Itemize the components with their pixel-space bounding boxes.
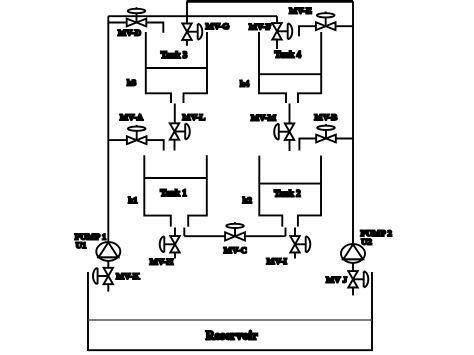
tank Tank 3 — [146, 32, 207, 103]
valve MV-H — [160, 236, 180, 252]
wire Tank 2 drain to MV-I — [294, 228, 296, 237]
svg-text:MV-L: MV-L — [182, 112, 205, 122]
wire left supply riser — [107, 16, 109, 242]
svg-text:MV J: MV J — [326, 275, 348, 285]
svg-text:MV-A: MV-A — [120, 112, 144, 122]
svg-text:MV-E: MV-E — [289, 5, 312, 15]
wire pump1 to MV-K — [107, 261, 109, 268]
svg-text:h4: h4 — [240, 78, 250, 88]
wire MV-L outlet stub — [174, 140, 176, 151]
wire MV-F drop from header — [276, 16, 278, 23]
wire MV-G riser — [186, 1, 188, 23]
wire MV-B branch right — [336, 138, 353, 140]
valve MV-G — [182, 24, 202, 40]
wire MV-H outlet stub — [174, 253, 176, 259]
tank Tank 4 — [259, 32, 321, 103]
svg-text:h3: h3 — [127, 77, 137, 87]
pump U2 — [341, 244, 365, 263]
wire MV-E branch right — [336, 25, 353, 27]
valve MV-J — [348, 271, 368, 287]
valve MV-L — [170, 123, 190, 139]
wire Tank 1 to MV-C riser — [183, 228, 185, 237]
wire Tank 1 drain to MV-H — [174, 228, 176, 237]
wire MV-A branch right + stub into Tank 1 — [147, 140, 164, 150]
svg-text:Tank 3: Tank 3 — [161, 50, 188, 60]
valve MV-K — [93, 268, 113, 284]
valve MV-E — [316, 12, 336, 31]
wire MV-D branch right + stub into Tank 3 — [146, 23, 163, 33]
wire right supply riser — [352, 1, 354, 244]
wire Tank 2 to MV-C riser — [285, 228, 287, 237]
svg-text:Tank 2: Tank 2 — [274, 189, 301, 199]
wire MV-G outlet stub — [186, 40, 188, 46]
wire top header from pump1 to MV-F — [108, 15, 277, 17]
pump U1 — [96, 242, 120, 261]
svg-text:MV-G: MV-G — [206, 21, 230, 31]
wire MV-I outlet stub — [294, 253, 296, 259]
svg-text:MV-H: MV-H — [150, 256, 174, 266]
wire MV-J outlet stub — [352, 287, 354, 295]
svg-text:h1: h1 — [128, 195, 137, 205]
wire MV-K outlet stub — [107, 284, 109, 291]
wire MV-A branch left — [108, 139, 127, 141]
wire MV-E branch left + stub into Tank 4 — [299, 26, 316, 36]
wire MV-B branch left + stub into Tank 2 — [299, 139, 316, 151]
wire Tank 4 drain pipe — [289, 104, 291, 124]
svg-text:MV-I: MV-I — [267, 256, 288, 266]
wire pump2 to MV-J — [352, 263, 354, 271]
tank Reservoir — [88, 272, 372, 350]
tank Tank 1 — [144, 155, 207, 226]
valve MV-F — [272, 23, 292, 39]
wire top bar MV-G to right frame — [187, 0, 354, 3]
svg-text:Reservoir: Reservoir — [206, 329, 259, 343]
svg-text:U1: U1 — [76, 240, 87, 250]
valve MV-A — [127, 125, 147, 144]
wire MV-C cross line — [184, 235, 285, 237]
valve MV-D — [127, 7, 147, 26]
svg-text:U2: U2 — [361, 237, 372, 247]
svg-text:MV-C: MV-C — [224, 245, 247, 255]
wire MV-D branch left — [108, 22, 127, 24]
svg-text:Tank 4: Tank 4 — [275, 49, 302, 59]
wire MV-M outlet stub — [289, 140, 291, 152]
valve MV-M — [274, 124, 294, 140]
svg-text:MV-D: MV-D — [118, 27, 141, 37]
svg-text:MV-F: MV-F — [249, 22, 271, 32]
wire Tank 3 drain pipe — [174, 104, 176, 124]
svg-text:MV-M: MV-M — [251, 112, 277, 122]
wire MV-F outlet stub — [276, 39, 278, 49]
valve MV-B — [316, 124, 336, 142]
valve MV-C — [225, 222, 245, 240]
svg-text:Tank 1: Tank 1 — [160, 188, 187, 198]
tank Tank 2 — [259, 156, 321, 227]
svg-text:MV-B: MV-B — [314, 112, 337, 122]
valve MV-I — [290, 236, 310, 252]
svg-text:MV-K: MV-K — [116, 271, 140, 281]
svg-text:h2: h2 — [243, 195, 253, 205]
